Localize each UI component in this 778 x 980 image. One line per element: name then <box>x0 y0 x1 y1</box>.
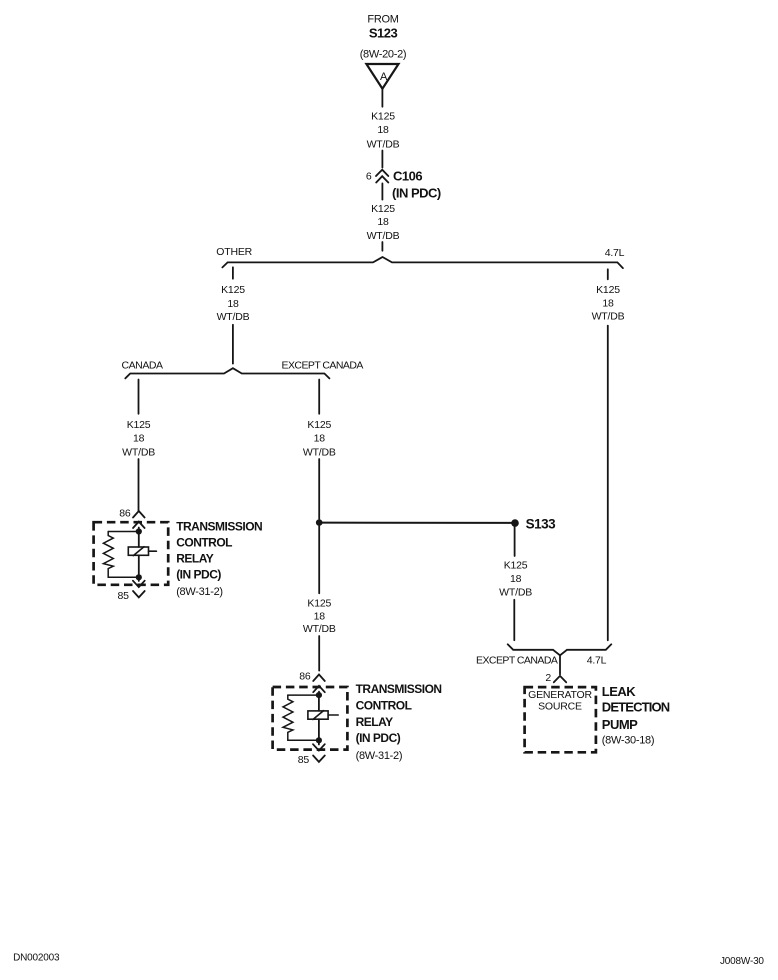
wire (OTHER branch) <box>232 267 234 278</box>
svg-text:K125: K125 <box>307 419 331 431</box>
wire <box>381 151 383 168</box>
sheet number J008W-30 <box>720 956 764 967</box>
svg-text:EXCEPT CANADA: EXCEPT CANADA <box>282 359 364 371</box>
wire (4.7L branch) <box>607 269 609 279</box>
svg-text:K125: K125 <box>221 284 245 296</box>
junction dot bottom (center relay) <box>316 737 322 743</box>
sheet number DN002003 <box>13 953 60 964</box>
junction dot top (center relay) <box>316 692 322 698</box>
svg-text:(IN PDC): (IN PDC) <box>356 731 401 745</box>
wire <box>318 636 320 671</box>
svg-text:18: 18 <box>602 297 614 309</box>
svg-text:WT/DB: WT/DB <box>122 447 155 459</box>
leak detection pump name text <box>602 684 670 747</box>
svg-text:18: 18 <box>314 610 326 622</box>
wire resistor bottom to bottom dot (center relay) <box>288 739 319 741</box>
wire label K125 18 WT/DB (center branch) <box>303 598 336 636</box>
svg-text:K125: K125 <box>504 559 528 571</box>
svg-text:WT/DB: WT/DB <box>217 311 250 323</box>
splice bracket OTHER / 4.7L <box>222 257 623 268</box>
off-page arrow A (triangle) <box>366 64 398 89</box>
relay coil (center relay) <box>318 695 320 711</box>
svg-text:WT/DB: WT/DB <box>499 587 532 599</box>
splice bracket CANADA / EXCEPT CANADA <box>125 368 329 378</box>
wire pin86 to coil (center relay) <box>318 692 320 695</box>
wire resistor bottom to bottom dot <box>108 576 139 578</box>
svg-text:PUMP: PUMP <box>602 717 638 732</box>
wire <box>513 600 515 640</box>
svg-text:(8W-31-2): (8W-31-2) <box>176 586 223 598</box>
wire label K125 18 WT/DB (below C106) <box>367 203 400 242</box>
svg-text:EXCEPT CANADA: EXCEPT CANADA <box>476 654 558 666</box>
svg-text:4.7L: 4.7L <box>605 247 625 259</box>
splice S133 junction dot <box>316 519 323 526</box>
svg-text:C106: C106 <box>393 169 422 184</box>
wire top dot to resistor <box>108 531 139 533</box>
svg-text:(IN PDC): (IN PDC) <box>392 186 441 201</box>
relay (left) name text <box>176 519 262 598</box>
relay K1 pin 86 connector chevrons (center relay) <box>313 675 325 682</box>
svg-text:86: 86 <box>299 671 311 683</box>
svg-text:S123: S123 <box>369 25 398 40</box>
pin 2 connector chevron (leak detection pump) <box>554 676 566 682</box>
resistor (center relay) <box>283 695 293 740</box>
wire label K125 18 WT/DB (S133 branch) <box>499 559 532 598</box>
svg-text:K125: K125 <box>307 598 331 610</box>
wire S133 down <box>514 527 516 557</box>
relay K1 pin 86 connector chevrons (left relay) <box>133 511 145 518</box>
svg-text:WT/DB: WT/DB <box>592 311 625 323</box>
svg-text:WT/DB: WT/DB <box>367 139 400 151</box>
svg-text:2: 2 <box>545 672 551 684</box>
leak detection pump dashed box (generator source) <box>525 687 596 752</box>
relay coil (left relay) <box>138 532 140 548</box>
svg-text:86: 86 <box>119 507 131 519</box>
wire (EXCEPT CANADA branch) <box>318 380 320 414</box>
resistor (left relay) <box>103 532 113 578</box>
svg-text:OTHER: OTHER <box>216 246 252 258</box>
svg-text:CANADA: CANADA <box>122 359 164 371</box>
merge bracket EXCEPT CANADA / 4.7L <box>508 644 612 655</box>
svg-text:(IN PDC): (IN PDC) <box>176 568 221 582</box>
wire merge to pin 2 <box>559 655 561 674</box>
svg-text:WT/DB: WT/DB <box>303 623 336 635</box>
svg-text:K125: K125 <box>596 284 620 296</box>
junction dot bottom (left relay) <box>136 574 142 580</box>
wire label K125 18 WT/DB (EXCEPT CANADA branch) <box>303 419 336 459</box>
wire 4.7L long run down <box>607 326 609 641</box>
svg-text:CONTROL: CONTROL <box>176 536 232 550</box>
svg-text:K125: K125 <box>127 419 151 431</box>
svg-text:18: 18 <box>510 573 522 585</box>
svg-text:LEAK: LEAK <box>602 684 637 699</box>
wire <box>381 183 383 199</box>
svg-text:4.7L: 4.7L <box>587 654 607 666</box>
wire <box>138 459 140 511</box>
svg-text:J008W-30: J008W-30 <box>720 956 764 967</box>
svg-text:85: 85 <box>118 590 130 602</box>
svg-text:K125: K125 <box>371 110 395 122</box>
wire <box>381 242 383 251</box>
wire (CANADA branch) <box>138 380 140 414</box>
wire label K125 18 WT/DB (4.7L branch) <box>592 284 625 322</box>
relay pin 85 connector chevrons (center relay) <box>318 740 320 744</box>
node A source label FROM S123 (8W-20-2) <box>360 14 407 61</box>
svg-text:85: 85 <box>298 754 310 766</box>
relay pin 85 connector chevrons (left relay) <box>138 577 140 581</box>
svg-text:(8W-20-2): (8W-20-2) <box>360 48 407 60</box>
svg-text:18: 18 <box>377 124 389 136</box>
svg-text:K125: K125 <box>371 203 395 215</box>
svg-text:TRANSMISSION: TRANSMISSION <box>176 519 262 533</box>
wire <box>318 459 320 519</box>
svg-text:WT/DB: WT/DB <box>367 230 400 242</box>
svg-text:(8W-31-2): (8W-31-2) <box>356 750 403 762</box>
wire EXCEPT CANADA center branch below S133 junction <box>318 526 320 593</box>
svg-text:18: 18 <box>227 298 239 310</box>
transmission control relay (center) dashed box <box>273 687 348 750</box>
svg-text:SOURCE: SOURCE <box>538 701 582 713</box>
svg-text:18: 18 <box>133 433 145 445</box>
svg-text:FROM: FROM <box>367 14 398 26</box>
wire <box>232 325 234 364</box>
wire label K125 18 WT/DB (top) <box>367 110 400 150</box>
transmission control relay (left) dashed box <box>94 522 169 585</box>
svg-text:TRANSMISSION: TRANSMISSION <box>356 682 442 696</box>
wire top dot to resistor (center relay) <box>288 694 319 696</box>
wire label K125 18 WT/DB (CANADA branch) <box>122 419 155 459</box>
svg-text:DETECTION: DETECTION <box>602 700 670 715</box>
relay (center) name text <box>356 682 442 762</box>
wire label K125 18 WT/DB (OTHER branch) <box>217 284 250 323</box>
svg-text:6: 6 <box>366 171 372 183</box>
connector C106 pin 6 (double chevron) <box>376 170 388 176</box>
wire from arrow A down <box>381 89 383 107</box>
svg-text:S133: S133 <box>526 516 557 531</box>
svg-text:DN002003: DN002003 <box>13 953 60 964</box>
svg-text:GENERATOR: GENERATOR <box>528 689 592 701</box>
svg-text:18: 18 <box>314 433 326 445</box>
svg-text:WT/DB: WT/DB <box>303 447 336 459</box>
wire pin86 to coil <box>138 528 140 532</box>
wire junction to S133 <box>319 522 515 524</box>
svg-text:(8W-30-18): (8W-30-18) <box>602 734 654 746</box>
junction dot top (left relay) <box>136 528 142 534</box>
svg-text:A: A <box>380 71 388 83</box>
svg-text:RELAY: RELAY <box>176 551 214 565</box>
svg-text:RELAY: RELAY <box>356 715 394 729</box>
splice S133 dot <box>511 519 519 527</box>
svg-text:18: 18 <box>377 216 389 228</box>
svg-text:CONTROL: CONTROL <box>356 699 412 713</box>
